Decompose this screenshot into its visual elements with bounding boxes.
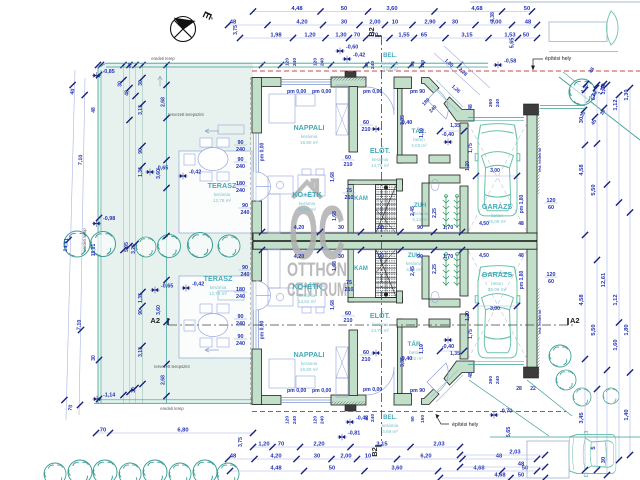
svg-text:4,58: 4,58: [579, 294, 585, 306]
svg-text:pm 0,00: pm 0,00: [363, 387, 382, 393]
bottom right dim rows: [460, 454, 545, 456]
svg-text:kerámia: kerámia: [406, 261, 423, 266]
svg-text:2,90: 2,90: [424, 20, 435, 26]
svg-text:1,20: 1,20: [258, 442, 269, 448]
svg-text:1,60: 1,60: [613, 339, 619, 350]
svg-text:14,70 m²: 14,70 m²: [371, 328, 390, 333]
left facade exterior dashed line (lower): [249, 242, 251, 405]
interior dim row below party wall: [262, 249, 462, 251]
svg-text:16,80 m²: 16,80 m²: [300, 140, 319, 145]
svg-text:12,78 m²: 12,78 m²: [213, 198, 232, 203]
stair north wall (upper): [348, 180, 403, 185]
level marker -1,14: [92, 396, 101, 403]
svg-text:-0,98: -0,98: [103, 216, 115, 222]
svg-text:ELŐT.: ELŐT.: [370, 311, 390, 320]
garage east wall (lower): [527, 248, 537, 375]
svg-text:építési hely: építési hely: [545, 56, 572, 62]
terrain up arrow: [158, 76, 162, 86]
right vertical chain 4: [618, 95, 620, 460]
svg-text:ELŐT.: ELŐT.: [370, 146, 390, 155]
svg-text:4,58: 4,58: [579, 164, 585, 176]
svg-text:3,75: 3,75: [238, 437, 244, 447]
svg-text:30: 30: [601, 457, 607, 463]
garage door line (lower): [468, 364, 524, 366]
terrace door arcs (upper): [256, 172, 271, 201]
svg-text:1,68: 1,68: [330, 300, 336, 310]
entry door arc (upper): [427, 90, 448, 120]
svg-text:1,20: 1,20: [304, 33, 315, 39]
svg-text:4,48: 4,48: [270, 466, 282, 472]
svg-text:240: 240: [320, 58, 326, 66]
svg-text:4,12 m²: 4,12 m²: [412, 217, 428, 222]
svg-text:3,35: 3,35: [400, 357, 406, 367]
svg-text:48: 48: [230, 454, 237, 460]
svg-text:1,68: 1,68: [330, 172, 336, 182]
parking rect bottom right: [527, 441, 569, 478]
svg-text:NAPPALI: NAPPALI: [293, 350, 324, 359]
svg-text:B2: B2: [370, 447, 379, 457]
street corner diagonal: [559, 77, 640, 140]
svg-text:kerámia: kerámia: [214, 192, 231, 197]
svg-text:4,20: 4,20: [294, 254, 305, 260]
svg-text:12,76 m²: 12,76 m²: [209, 291, 228, 296]
svg-text:1,55: 1,55: [398, 33, 410, 39]
svg-text:2,03: 2,03: [433, 442, 445, 448]
svg-text:-1,14: -1,14: [103, 393, 115, 399]
entry door swing (upper): [366, 87, 394, 115]
svg-text:3,00: 3,00: [490, 168, 500, 174]
entry walkway lines (upper): [431, 85, 458, 112]
left wall mid section (upper): [252, 201, 262, 240]
svg-text:7,10: 7,10: [78, 155, 85, 166]
interior T-wall stem (upper): [349, 87, 358, 153]
svg-text:90: 90: [417, 254, 423, 260]
svg-text:48: 48: [525, 20, 532, 26]
tree bottom right 1: [549, 345, 571, 367]
level marker -0,40: [443, 139, 452, 146]
bush bottom 3: [93, 460, 117, 480]
svg-text:4,50: 4,50: [479, 221, 489, 227]
svg-text:-0,40: -0,40: [442, 344, 454, 350]
svg-text:40: 40: [364, 62, 370, 68]
svg-text:90: 90: [378, 225, 384, 231]
sofa (lower): [269, 359, 295, 388]
street curb line: [549, 51, 618, 53]
svg-text:GARÁZS: GARÁZS: [482, 202, 513, 211]
level marker -0,58: [493, 62, 502, 69]
top border line: [470, 1, 640, 3]
svg-text:48: 48: [468, 104, 474, 110]
svg-text:7,10: 7,10: [76, 320, 83, 331]
svg-text:4,20: 4,20: [296, 20, 307, 26]
entrance north wall (upper): [394, 77, 412, 89]
svg-text:3,45: 3,45: [579, 412, 585, 424]
svg-text:13,52 m²: 13,52 m²: [298, 299, 317, 304]
svg-text:pm 0,00: pm 0,00: [287, 89, 306, 95]
svg-text:4,50: 4,50: [479, 253, 489, 259]
terrain bottom double line: [98, 399, 253, 401]
svg-text:6,20: 6,20: [420, 454, 431, 460]
svg-text:30: 30: [338, 225, 344, 231]
top dimension row 1: [253, 11, 532, 13]
svg-text:kerámia: kerámia: [301, 134, 318, 139]
svg-text:13,52 m²: 13,52 m²: [298, 207, 317, 212]
svg-text:50: 50: [410, 416, 416, 422]
svg-text:2,25: 2,25: [432, 208, 438, 218]
tree top right: [569, 79, 595, 105]
svg-text:-0,60: -0,60: [346, 45, 358, 51]
svg-text:240: 240: [236, 321, 245, 327]
closet with X (lower): [336, 378, 348, 397]
svg-text:1,12: 1,12: [613, 99, 619, 110]
svg-text:hrsz. melletti fal: hrsz. melletti fal: [538, 148, 542, 172]
level marker -0,65: [145, 169, 154, 176]
garage inner dim lines: [476, 175, 517, 177]
svg-text:BEL.: BEL.: [383, 53, 397, 59]
pantry room KAM (lower): [354, 249, 376, 298]
tree row 5: [218, 235, 240, 257]
svg-text:240: 240: [370, 414, 376, 422]
svg-text:3,60: 3,60: [386, 6, 397, 12]
svg-text:kerámia: kerámia: [210, 285, 227, 290]
garage east wall (upper): [527, 107, 537, 234]
svg-text:70: 70: [372, 33, 378, 39]
level marker -0,40: [371, 350, 380, 357]
bush bottom 5: [143, 460, 167, 480]
garage floor cross (upper): [468, 123, 527, 232]
svg-text:30: 30: [138, 80, 144, 86]
north facade window (lower): [281, 402, 331, 404]
svg-text:pm 1,80: pm 1,80: [519, 270, 525, 289]
driveway lines upper garage: [540, 105, 585, 107]
section line A2-A2: [168, 324, 575, 326]
svg-text:240: 240: [320, 416, 326, 424]
svg-text:2,03: 2,03: [509, 450, 521, 456]
svg-text:10: 10: [365, 454, 371, 460]
svg-text:240: 240: [236, 341, 245, 347]
right vertical chain 1: [584, 90, 586, 470]
svg-text:150: 150: [420, 415, 426, 423]
svg-text:-0,42: -0,42: [192, 282, 204, 288]
svg-text:1,12: 1,12: [613, 294, 619, 305]
svg-text:12,61: 12,61: [601, 272, 607, 287]
svg-text:48: 48: [518, 221, 524, 227]
svg-text:4,68: 4,68: [494, 473, 506, 479]
svg-text:építési hely: építési hely: [452, 422, 479, 428]
svg-text:pm 90: pm 90: [410, 89, 425, 95]
svg-text:-0,42: -0,42: [189, 170, 201, 176]
pillar at entry (upper): [345, 71, 356, 77]
svg-text:tervezett terepszint: tervezett terepszint: [154, 364, 190, 369]
storage south wall (lower): [397, 319, 417, 327]
svg-text:4,68: 4,68: [471, 6, 483, 12]
svg-text:KO+ÉTK: KO+ÉTK: [292, 282, 322, 291]
svg-text:eredeti terep: eredeti terep: [82, 228, 87, 252]
svg-text:210: 210: [362, 127, 371, 133]
stair east pier (lower): [397, 291, 403, 303]
wall NW corner horizontal (upper): [252, 78, 281, 87]
svg-text:3,15: 3,15: [376, 442, 388, 448]
svg-text:1,20: 1,20: [465, 161, 471, 171]
svg-text:TERASZ: TERASZ: [208, 181, 237, 190]
bottom dimension row 3: [230, 470, 537, 472]
svg-text:pm 0,00: pm 0,00: [363, 89, 382, 95]
svg-text:210: 210: [344, 318, 353, 324]
svg-text:-0,40: -0,40: [442, 132, 454, 138]
svg-text:4,20: 4,20: [294, 225, 305, 231]
wall NW corner vertical (lower): [252, 349, 262, 405]
right vertical chain 5: [629, 88, 631, 455]
svg-text:210: 210: [344, 162, 353, 168]
svg-text:240: 240: [241, 210, 250, 216]
svg-text:1,30: 1,30: [624, 89, 630, 100]
right vertical chain 2: [596, 85, 598, 470]
left wall window (upper): [253, 133, 255, 172]
svg-text:5,50: 5,50: [591, 184, 597, 195]
bush bottom 7: [193, 460, 217, 480]
north wall hatched (lower): [331, 395, 366, 405]
svg-text:-0,81: -0,81: [348, 431, 360, 437]
stair west wall (lower): [348, 248, 354, 302]
svg-text:90: 90: [417, 225, 423, 231]
svg-text:3,60: 3,60: [156, 305, 162, 315]
svg-text:kerámia: kerámia: [301, 361, 318, 366]
svg-text:1,35: 1,35: [450, 123, 460, 129]
level marker -0,42: [345, 419, 354, 426]
tree row 4: [188, 233, 213, 258]
level marker -0,81: [337, 434, 346, 441]
svg-text:hrsz. melletti fal: hrsz. melletti fal: [538, 310, 542, 334]
svg-text:beton: beton: [491, 213, 503, 218]
garage door line (upper): [468, 117, 524, 119]
svg-text:2,45: 2,45: [410, 206, 416, 216]
svg-text:KO+ÉTK: KO+ÉTK: [292, 190, 322, 199]
garage NE corner block (lower): [524, 367, 539, 378]
svg-text:1,68: 1,68: [332, 261, 338, 271]
bush crescent: [607, 11, 619, 45]
svg-text:120: 120: [313, 416, 319, 424]
svg-text:2,20: 2,20: [313, 442, 324, 448]
svg-text:KAM: KAM: [354, 196, 368, 202]
svg-text:1,68: 1,68: [332, 211, 338, 221]
svg-text:240: 240: [236, 147, 245, 153]
svg-text:2,25: 2,25: [432, 264, 438, 274]
angled entry wall piece 1 (lower): [422, 389, 440, 405]
tar dim line lower: [440, 350, 464, 352]
terrace furniture (lower): [198, 314, 228, 337]
level marker -0,65: [150, 287, 159, 294]
svg-text:6,80: 6,80: [177, 428, 188, 434]
tree row 1: [64, 231, 90, 257]
garage NE corner block (upper): [524, 104, 539, 115]
left wall mid section (lower): [252, 242, 262, 281]
svg-text:70: 70: [68, 404, 75, 411]
red dashed building limit top: [252, 70, 640, 72]
svg-text:48: 48: [230, 20, 237, 26]
svg-text:3,00: 3,00: [490, 306, 500, 312]
shower fixtures green (upper): [443, 195, 449, 228]
top dimension row 2: [228, 24, 537, 26]
terrace furniture (upper): [198, 148, 228, 171]
left slanted dim line outer: [66, 70, 75, 420]
svg-text:2,00: 2,00: [369, 20, 380, 26]
svg-text:30: 30: [314, 454, 320, 460]
top dimension row 3: [240, 37, 537, 39]
interior T-wall stem (lower): [349, 330, 358, 396]
terrace slab upper: [179, 151, 252, 233]
svg-text:2,68: 2,68: [161, 375, 167, 385]
svg-text:50: 50: [329, 466, 335, 472]
svg-text:240: 240: [292, 58, 298, 66]
svg-text:4,02 m²: 4,02 m²: [411, 143, 427, 148]
stair west wall (upper): [348, 180, 354, 234]
staircase hatched (lower): [376, 249, 397, 298]
svg-text:50: 50: [523, 33, 529, 39]
tree row 3: [158, 235, 181, 258]
svg-text:260: 260: [488, 99, 494, 107]
hall shower divider wall (upper): [422, 183, 429, 226]
red dashed building limit bottom: [252, 411, 566, 413]
svg-text:14,71: 14,71: [63, 238, 70, 252]
tree bottom right 4: [603, 388, 619, 404]
svg-text:70: 70: [100, 428, 106, 434]
compass rose: [171, 17, 196, 42]
svg-text:15,81: 15,81: [91, 244, 97, 257]
svg-text:48: 48: [496, 454, 503, 460]
svg-text:1,10: 1,10: [419, 128, 425, 138]
wc (lower): [431, 292, 439, 303]
svg-text:4,20: 4,20: [270, 454, 281, 460]
svg-text:NAPPALI: NAPPALI: [293, 123, 324, 132]
car in lower garage: [475, 266, 520, 358]
svg-text:30: 30: [338, 254, 344, 260]
svg-text:240: 240: [241, 272, 250, 278]
garage west wall (lower): [460, 314, 468, 359]
street line bottom right: [490, 436, 640, 438]
svg-text:60: 60: [548, 279, 554, 285]
svg-text:1,35: 1,35: [450, 351, 460, 357]
svg-text:60: 60: [548, 205, 554, 211]
svg-text:30: 30: [91, 355, 97, 361]
entry door swing (lower): [366, 367, 394, 395]
terrain top edge ticks: [95, 62, 101, 68]
svg-text:3,69 m²: 3,69 m²: [382, 67, 398, 72]
svg-text:3,35: 3,35: [400, 115, 406, 125]
garage west wall (upper): [460, 123, 468, 168]
terrain contour lines: [97, 68, 99, 403]
kitchen counter (lower): [268, 288, 293, 306]
svg-text:120: 120: [313, 58, 319, 66]
svg-text:1,20: 1,20: [465, 311, 471, 321]
svg-text:pm 0,00: pm 0,00: [260, 142, 266, 161]
bush bottom 6: [169, 463, 191, 480]
svg-text:1,75: 1,75: [468, 143, 474, 153]
bush bottom 4: [119, 463, 141, 480]
svg-text:3,38: 3,38: [490, 12, 496, 22]
svg-text:3,69 m²: 3,69 m²: [382, 429, 398, 434]
svg-text:eredeti terep: eredeti terep: [160, 406, 184, 411]
left facade exterior dashed line (upper): [249, 77, 251, 240]
dining table (lower): [298, 286, 325, 307]
level marker -0,42: [181, 285, 190, 292]
svg-text:-0,85: -0,85: [103, 69, 115, 75]
svg-text:240: 240: [292, 416, 298, 424]
svg-text:5,65: 5,65: [510, 38, 516, 49]
pantry room KAM (upper): [354, 185, 376, 234]
garden terrain fill: [98, 63, 253, 404]
svg-text:1,53: 1,53: [504, 33, 516, 39]
svg-text:4,48: 4,48: [291, 6, 303, 12]
svg-text:2,45: 2,45: [410, 266, 416, 276]
sofa (upper): [269, 94, 295, 123]
left contour cluster ticks: [120, 77, 126, 83]
kitchen counter (upper): [268, 176, 293, 194]
svg-text:2,68: 2,68: [161, 97, 167, 107]
svg-text:48: 48: [468, 372, 474, 378]
svg-text:50: 50: [524, 6, 530, 12]
svg-text:1,30: 1,30: [335, 33, 346, 39]
svg-text:3,15: 3,15: [461, 33, 473, 39]
north wall hatched (upper): [331, 77, 366, 87]
svg-text:70: 70: [278, 442, 284, 448]
north facade window (upper): [281, 79, 331, 81]
bush bottom 2: [68, 460, 92, 480]
svg-text:10: 10: [392, 20, 398, 26]
svg-text:240: 240: [495, 376, 501, 384]
svg-text:1,80: 1,80: [624, 324, 630, 335]
svg-text:1,98: 1,98: [270, 33, 282, 39]
svg-text:kerámia: kerámia: [299, 293, 316, 298]
garage floor cross (lower): [468, 250, 527, 359]
shower fixtures green (lower): [443, 253, 449, 286]
svg-text:4,68: 4,68: [473, 466, 485, 472]
svg-text:50: 50: [518, 473, 524, 479]
car in upper garage: [475, 124, 520, 216]
svg-text:pm 1,80: pm 1,80: [519, 194, 525, 213]
svg-text:A2: A2: [150, 316, 160, 325]
level marker -0,60: [335, 48, 344, 55]
svg-text:TERASZ: TERASZ: [204, 274, 233, 283]
garden arrow lower: [205, 348, 219, 352]
level marker -0,42: [178, 173, 187, 180]
left wall window (lower): [253, 310, 255, 349]
svg-text:30: 30: [452, 20, 458, 26]
left slanted dim line 2: [79, 78, 85, 415]
svg-text:240: 240: [236, 294, 245, 300]
angled entry wall piece 2 (upper): [444, 97, 474, 121]
party wall: [253, 233, 537, 249]
svg-text:KAM: KAM: [354, 266, 368, 272]
svg-text:pm 0,00: pm 0,00: [260, 320, 266, 339]
garden arrow upper: [205, 129, 219, 133]
pillar at entry (lower): [345, 405, 356, 411]
level marker -0,85: [92, 72, 101, 79]
svg-text:240: 240: [370, 61, 376, 69]
svg-text:40: 40: [69, 88, 76, 95]
left chain at garden edge: [96, 72, 102, 78]
stair north wall (lower): [348, 298, 403, 303]
svg-text:260: 260: [488, 376, 494, 384]
level marker -0,40: [443, 337, 452, 344]
diagonal walk dim lines: [434, 53, 480, 95]
tar dim line upper: [440, 130, 464, 132]
svg-text:48: 48: [518, 462, 525, 468]
svg-text:1,70: 1,70: [443, 254, 454, 260]
closet with X (upper): [336, 85, 348, 104]
svg-text:48: 48: [518, 253, 524, 259]
svg-text:210: 210: [362, 357, 371, 363]
svg-text:48: 48: [91, 107, 97, 113]
